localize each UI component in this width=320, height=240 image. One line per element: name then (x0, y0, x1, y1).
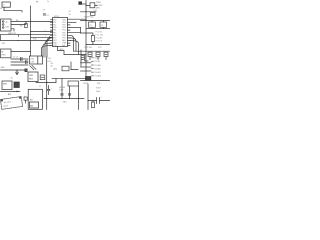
connector J2 left (1, 19, 12, 31)
wire y82.5 (36, 82, 56, 84)
relay K1 dark (14, 82, 19, 88)
capacitor C12 (91, 12, 96, 15)
wire y80.5 (81, 80, 110, 82)
svg-text:+: + (51, 88, 52, 90)
wire y98.5 (44, 98, 84, 100)
battery dashed box (0, 97, 22, 110)
svg-text:+: + (24, 95, 25, 97)
svg-text:5V: 5V (11, 77, 14, 79)
wire RXD (11, 22, 26, 25)
crystal Y1 dark (79, 2, 82, 5)
svg-text:1: 1 (45, 30, 46, 32)
wire stub y33 (81, 33, 93, 45)
svg-text:12M: 12M (30, 62, 34, 64)
svg-text:SPK: SPK (97, 83, 101, 85)
svg-text:P2.5 A13: P2.5 A13 (94, 75, 101, 78)
diode D2 arrows (30, 65, 36, 69)
svg-text:TXD: TXD (2, 43, 6, 45)
svg-text:MAX232: MAX232 (8, 32, 17, 35)
wire y78.3 (52, 77, 86, 79)
wire y68.5 (1, 69, 25, 71)
svg-text:P2.4 A12: P2.4 A12 (94, 71, 101, 74)
wire y64.5 (71, 62, 78, 70)
capacitor C8 (24, 95, 28, 103)
svg-text:31: 31 (69, 11, 71, 13)
capacitor C4 (100, 22, 107, 27)
speaker box LS1 (68, 81, 79, 86)
resistor stubs (90, 57, 106, 60)
svg-text:XTAL1: XTAL1 (96, 1, 101, 4)
svg-text:7805: 7805 (29, 75, 33, 77)
svg-text:0.5W: 0.5W (59, 90, 63, 92)
bus vertical x86 top (85, 1, 87, 81)
wire y31.6 (31, 31, 53, 33)
wire U1 pin1 to bus (70, 18, 86, 20)
oscillator box G1 (30, 56, 43, 64)
svg-text:J3: J3 (1, 52, 3, 54)
junction (26, 21, 27, 22)
wire y51.2 (74, 50, 110, 52)
wire y20.5 (81, 20, 110, 22)
svg-text:R8: R8 (20, 26, 22, 28)
svg-text:REG: REG (29, 79, 33, 81)
svg-text:A51: A51 (30, 105, 33, 108)
svg-text:GND: GND (63, 101, 68, 103)
capacitor C7 (40, 75, 45, 80)
regulator U2 (28, 72, 38, 82)
svg-text:40: 40 (51, 66, 53, 68)
switch S1 box (62, 66, 69, 71)
junction (46, 98, 47, 99)
svg-text:3: 3 (45, 35, 46, 37)
resistor R3 (88, 52, 92, 56)
wire y37.3 (31, 36, 53, 38)
wire verticals bottom (62, 78, 79, 98)
capacitor C10 box (86, 3, 97, 8)
junction (30, 21, 31, 22)
svg-text:PACK: PACK (3, 104, 9, 108)
svg-text:RP1 10K: RP1 10K (85, 47, 93, 49)
U1 bottom pin (58, 47, 65, 55)
wire top horizontal (4, 11, 22, 12)
svg-text:[S1]-: [S1]- (54, 69, 58, 71)
svg-text:C9: C9 (43, 10, 45, 12)
junction dot (16, 91, 17, 92)
wire y4 (82, 3, 86, 5)
svg-text:J2: J2 (6, 22, 8, 24)
junction (87, 100, 88, 101)
capacitor C16 (68, 94, 70, 95)
svg-text:PWR: PWR (1, 55, 6, 57)
wire below J2 (11, 29, 14, 31)
wire bus y34.7 (1, 34, 53, 36)
capacitor C6 (26, 60, 28, 63)
svg-text:P2.3 A11: P2.3 A11 (94, 67, 101, 70)
capacitor C15 (61, 94, 63, 95)
resistor R5 (104, 52, 108, 56)
wire TXD long to IC (11, 21, 53, 23)
resistor R4 (96, 52, 100, 56)
svg-text:P1.2 EC: P1.2 EC (96, 37, 103, 39)
svg-text:ALE: ALE (62, 39, 66, 42)
wire y71 (81, 70, 92, 72)
resistor R2 (91, 36, 94, 42)
capacitor C3 (89, 22, 96, 27)
ground sym (15, 70, 18, 75)
svg-text:EA/VP 30p: EA/VP 30p (85, 16, 94, 19)
svg-text:SW1: SW1 (3, 84, 7, 86)
wire U1 pin to right edge (70, 27, 81, 29)
pin dashes (92, 58, 93, 76)
U1 left pins (51, 20, 53, 46)
svg-text:GND: GND (1, 67, 6, 69)
MCU U1 (53, 18, 68, 48)
wire x46.7 vertical long (46, 57, 48, 110)
svg-text:P2.2 A10: P2.2 A10 (94, 64, 101, 67)
svg-text:G: G (0, 8, 2, 10)
wire y28.5 (86, 28, 110, 30)
wire curves right pins down (70, 35, 79, 54)
svg-text:C11: C11 (94, 10, 97, 12)
svg-text:+: + (101, 97, 102, 99)
wire y54.6 (64, 54, 86, 56)
svg-text:10uF: 10uF (96, 91, 101, 93)
svg-text:9V BATT: 9V BATT (4, 100, 12, 104)
capacitor C14 (97, 97, 102, 104)
wire J1 down (3, 8, 5, 11)
svg-text:ELI: ELI (30, 99, 33, 101)
svg-text:J1: J1 (3, 4, 5, 6)
svg-text:1u: 1u (47, 1, 49, 3)
svg-text:P1.0 T2: P1.0 T2 (96, 31, 102, 33)
wire vertical x31 (30, 6, 32, 56)
junction (46, 82, 47, 83)
wire stub pin2 (70, 21, 76, 23)
transistor Q1 (81, 50, 85, 66)
wire q1 right (85, 60, 88, 62)
switch box S2 (2, 81, 12, 90)
svg-text:P1.1 T2X: P1.1 T2X (96, 34, 104, 36)
wire x88 down (87, 84, 89, 110)
junction dots (30, 30, 31, 33)
wire y44.5 (86, 44, 110, 46)
wire riser (55, 78, 57, 82)
resistor R8 (25, 24, 28, 28)
svg-text:P2.1 A9: P2.1 A9 (94, 60, 100, 63)
junction (85, 19, 86, 20)
svg-text:VOUT: VOUT (96, 88, 102, 90)
wire y100.5 (88, 100, 110, 102)
svg-text:C3: C3 (89, 25, 91, 27)
stubs C3 C4 (92, 21, 103, 29)
capacitor C5 (21, 57, 23, 60)
svg-text:+5V: +5V (48, 58, 52, 60)
wire bus y40.5 (1, 37, 50, 41)
wire curves left pins down (42, 38, 51, 57)
svg-text:19: 19 (69, 14, 71, 16)
svg-text:P3: P3 (36, 2, 38, 4)
svg-text:VCC: VCC (98, 47, 102, 49)
wire y11.8 (81, 11, 97, 13)
svg-text:C1 C2: C1 C2 (13, 57, 18, 59)
diode D1 dark (86, 77, 91, 81)
svg-text:P2.0 A8: P2.0 A8 (94, 57, 100, 60)
wire x78.5 down (78, 99, 80, 110)
svg-text:P1.3 CX: P1.3 CX (96, 40, 103, 42)
capacitor mark (43, 14, 45, 15)
wire left edge (0, 35, 2, 41)
U1 right pins (68, 19, 71, 45)
connector J1 top-left (2, 2, 10, 7)
svg-text:DB9: DB9 (6, 27, 10, 29)
connector J3 left (1, 49, 12, 58)
wire rows from J3 (11, 52, 31, 66)
resistor R6 (91, 101, 94, 108)
wire y67 (81, 66, 92, 68)
svg-text:OSC: OSC (30, 59, 35, 61)
svg-text:C7: C7 (39, 86, 41, 88)
wire y91.5 (1, 91, 21, 93)
resistor ticks (89, 53, 107, 55)
svg-text:89C51: 89C51 (54, 16, 59, 18)
svg-text:11.0592: 11.0592 (96, 5, 102, 7)
svg-text:BT1: BT1 (8, 94, 11, 96)
capacitor C13 polarized (47, 86, 52, 95)
junction dot (18, 40, 19, 41)
svg-text:U1: U1 (47, 15, 49, 17)
tick (18, 35, 20, 37)
wire y62.8 (81, 62, 92, 64)
dark blob GND2 (25, 69, 28, 73)
title box (28, 89, 42, 109)
svg-text:C4: C4 (101, 25, 103, 27)
svg-text:AD0: AD0 (60, 48, 64, 51)
wire stub right (70, 28, 81, 34)
